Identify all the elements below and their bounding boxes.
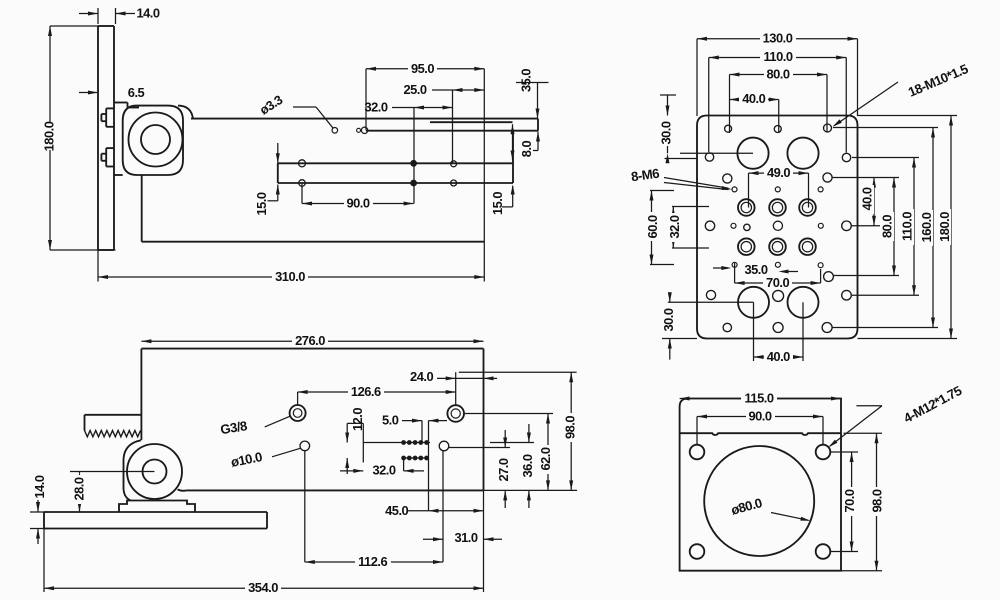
dim 35.0 bbox=[516, 69, 549, 119]
body left edge bbox=[140, 349, 142, 441]
M10 hole 8 bbox=[705, 221, 714, 230]
flange bolt hole TR bbox=[816, 445, 831, 460]
body top edge bbox=[141, 348, 483, 350]
svg-text:30.0: 30.0 bbox=[661, 308, 676, 331]
svg-text:276.0: 276.0 bbox=[295, 333, 325, 348]
dim 40.0 top bbox=[730, 91, 779, 133]
port dot 9 bbox=[419, 456, 423, 460]
rail hole B2 bbox=[411, 180, 417, 186]
svg-text:110.0: 110.0 bbox=[899, 212, 914, 241]
flange bore d80 bbox=[704, 446, 814, 556]
flange inner edge bbox=[680, 433, 841, 435]
dim 276.0 bbox=[141, 333, 483, 348]
dim 15.0 right bbox=[490, 185, 515, 216]
svg-text:28.0: 28.0 bbox=[71, 477, 86, 500]
M10 hole 1 bbox=[725, 125, 732, 132]
dim 8.0 bbox=[511, 124, 541, 160]
svg-text:160.0: 160.0 bbox=[919, 212, 934, 242]
svg-text:25.0: 25.0 bbox=[403, 82, 426, 97]
svg-text:5.0: 5.0 bbox=[382, 413, 399, 428]
dim 98.0 flange bbox=[841, 433, 884, 571]
M6 hole 2 bbox=[775, 187, 780, 192]
dim 70.0 flange bbox=[831, 452, 859, 552]
dim 310.0 bbox=[98, 69, 484, 284]
dim 45.0 bbox=[385, 421, 483, 518]
dim 32.0 bbox=[364, 99, 452, 203]
M6 hole 1 bbox=[732, 187, 737, 192]
dim 14.0 bbox=[79, 6, 160, 24]
dim 110.0 bbox=[709, 49, 847, 153]
svg-text:35.0: 35.0 bbox=[744, 262, 767, 277]
port dot 7 bbox=[407, 456, 411, 460]
dim 90.0 flange bbox=[697, 408, 823, 444]
threaded hole T1 bbox=[738, 199, 755, 216]
svg-text:14.0: 14.0 bbox=[32, 475, 47, 498]
rail bottom edge bbox=[278, 182, 513, 184]
svg-text:32.0: 32.0 bbox=[667, 215, 682, 238]
port bore big TR bbox=[787, 138, 818, 169]
rail left end bbox=[277, 163, 279, 183]
port dot 2 bbox=[407, 441, 411, 445]
centerline to big bore TL bbox=[680, 152, 753, 154]
dim 160.0 right bbox=[832, 128, 938, 328]
svg-text:70.0: 70.0 bbox=[766, 275, 789, 290]
M6 hole 3 bbox=[818, 187, 823, 192]
svg-text:40.0: 40.0 bbox=[742, 91, 765, 106]
M10 hole 13 bbox=[842, 290, 852, 300]
serrated coupling bbox=[85, 415, 141, 437]
svg-text:95.0: 95.0 bbox=[411, 61, 434, 76]
small hole pair bbox=[357, 127, 368, 133]
dim 28.0 bbox=[70, 472, 155, 513]
label 18-M10*1.5 bbox=[833, 61, 971, 127]
M10 hole 14 bbox=[824, 272, 834, 282]
dim 30.0 top bbox=[658, 95, 697, 163]
label 8-M6 bbox=[630, 166, 732, 190]
svg-text:35.0: 35.0 bbox=[518, 69, 533, 92]
dim 6.5 bbox=[79, 85, 145, 100]
svg-text:354.0: 354.0 bbox=[248, 580, 278, 595]
valve plate outline bbox=[697, 116, 858, 339]
svg-text:27.0: 27.0 bbox=[496, 458, 511, 481]
svg-text:90.0: 90.0 bbox=[748, 408, 771, 423]
M10 hole 9 bbox=[842, 221, 852, 231]
mid block right edge bbox=[512, 131, 514, 183]
dim 27.0 bbox=[496, 430, 511, 508]
port bore big BR bbox=[788, 287, 819, 318]
rail top edge bbox=[278, 162, 513, 164]
M6 hole 6 bbox=[818, 263, 823, 268]
rail hole A2 bbox=[299, 180, 306, 187]
dim 25.0 bbox=[403, 82, 484, 164]
svg-text:32.0: 32.0 bbox=[364, 99, 387, 114]
port dot 4 bbox=[419, 441, 423, 445]
svg-text:24.0: 24.0 bbox=[410, 369, 433, 384]
base plate bbox=[44, 512, 267, 529]
dim 130.0 bbox=[697, 30, 858, 116]
dim 49.0 bbox=[749, 165, 809, 208]
ext bottom right bbox=[484, 489, 578, 491]
ext line 98 top bbox=[459, 371, 577, 373]
dim 32.0 cluster bbox=[340, 458, 424, 478]
port dot 8 bbox=[413, 456, 417, 460]
bearing boss outline bbox=[123, 106, 183, 175]
rail hole C2 bbox=[451, 180, 457, 186]
svg-text:49.0: 49.0 bbox=[767, 165, 790, 180]
M6 hole 4 bbox=[732, 262, 737, 267]
threaded hole T6 bbox=[799, 238, 816, 255]
label dia3.3 bbox=[257, 92, 333, 128]
dim 110.0 right bbox=[852, 158, 919, 296]
motor boss right bbox=[178, 490, 187, 491]
motor foot bbox=[119, 501, 195, 513]
svg-text:32.0: 32.0 bbox=[372, 463, 395, 478]
threaded hole T4 bbox=[738, 238, 755, 255]
svg-text:180.0: 180.0 bbox=[937, 212, 952, 242]
svg-text:62.0: 62.0 bbox=[538, 447, 553, 470]
dim 5.0 bbox=[382, 413, 447, 443]
dim 80.0 bbox=[730, 66, 828, 133]
svg-text:15.0: 15.0 bbox=[490, 192, 505, 215]
svg-text:98.0: 98.0 bbox=[869, 489, 884, 512]
motor outer circle bbox=[127, 444, 182, 499]
M10 hole 12 bbox=[773, 290, 784, 301]
dot row1 line bbox=[363, 442, 430, 444]
M10 hole 15 bbox=[723, 323, 731, 331]
svg-text:90.0: 90.0 bbox=[346, 195, 369, 210]
svg-text:31.0: 31.0 bbox=[454, 530, 477, 545]
dim 115.0 bbox=[680, 390, 841, 405]
dim 15.0 left bbox=[254, 143, 280, 216]
arm top edge bbox=[191, 118, 538, 120]
port plug lower bbox=[101, 148, 114, 166]
threaded hole T5 bbox=[769, 238, 786, 255]
svg-text:15.0: 15.0 bbox=[254, 192, 269, 215]
boss to arm transition bbox=[178, 106, 193, 119]
M10 hole 16 bbox=[773, 323, 783, 333]
port dot 3 bbox=[413, 441, 417, 445]
M6 hole 5 bbox=[775, 262, 780, 267]
dim 70.0 plate bbox=[735, 269, 821, 290]
dim 40.0 bottom bbox=[754, 302, 804, 364]
rail hole A1 bbox=[299, 160, 306, 167]
dim 180.0 bbox=[41, 26, 115, 250]
dim 35.0 plate bbox=[713, 262, 798, 283]
M10 hole 7 bbox=[823, 173, 832, 182]
M10 hole 17 bbox=[822, 323, 832, 333]
M6 hole 8 bbox=[818, 223, 823, 228]
body right edge bbox=[483, 349, 485, 491]
svg-text:12.0: 12.0 bbox=[350, 408, 365, 431]
dim 24.0 bbox=[410, 369, 497, 384]
flange bolt hole BL bbox=[690, 544, 705, 559]
flange bolt hole BR bbox=[816, 544, 831, 559]
label 4-M12*1.75 bbox=[828, 383, 964, 447]
dim 14.0 base bbox=[30, 475, 48, 544]
M10 hole 3 bbox=[824, 124, 832, 132]
M10 hole 11 bbox=[706, 290, 715, 299]
body lower-left profile bbox=[114, 175, 484, 242]
dim 12.0 bbox=[345, 408, 365, 474]
M10 hole 2 bbox=[774, 126, 781, 133]
port G3/8 right bbox=[447, 405, 464, 422]
svg-text:112.6: 112.6 bbox=[358, 554, 387, 569]
svg-text:36.0: 36.0 bbox=[520, 454, 535, 477]
dim 60.0 bbox=[645, 191, 674, 265]
hole mid bbox=[439, 441, 449, 451]
M10 hole 10 bbox=[744, 224, 750, 230]
ext row1 right bbox=[490, 442, 534, 444]
dim 36.0 bbox=[520, 424, 535, 508]
bearing outer circle bbox=[129, 113, 183, 167]
dim 95.0 bbox=[366, 61, 484, 130]
svg-text:126.6: 126.6 bbox=[351, 384, 381, 399]
motor inner circle bbox=[143, 460, 167, 484]
svg-text:70.0: 70.0 bbox=[842, 489, 857, 512]
M10 hole 6 bbox=[723, 174, 732, 183]
dim 62.0 bbox=[538, 414, 553, 491]
M10 hole 5 bbox=[842, 153, 850, 161]
port plug upper bbox=[101, 108, 114, 126]
body bottom edge bbox=[187, 489, 484, 491]
threaded hole T2 bbox=[769, 199, 786, 216]
svg-text:40.0: 40.0 bbox=[767, 349, 790, 364]
svg-text:80.0: 80.0 bbox=[879, 215, 894, 238]
svg-text:14.0: 14.0 bbox=[136, 6, 159, 21]
svg-text:110.0: 110.0 bbox=[763, 49, 792, 64]
dim 80.0 right bbox=[834, 178, 899, 276]
dim 180.0 right bbox=[858, 116, 958, 339]
svg-text:60.0: 60.0 bbox=[645, 215, 660, 238]
hole d10 bbox=[300, 441, 310, 451]
port dot 10 bbox=[425, 456, 429, 460]
label dia10.0 bbox=[230, 448, 301, 470]
mounting plate side profile bbox=[98, 26, 114, 250]
rail hole B1 bbox=[411, 161, 417, 167]
shaft end cap bbox=[537, 119, 539, 131]
label dia80.0 bbox=[729, 495, 810, 521]
svg-text:80.0: 80.0 bbox=[766, 66, 789, 81]
body top step bbox=[114, 103, 139, 108]
dim 98.0 view2 bbox=[562, 372, 577, 490]
dim 354.0 bbox=[44, 490, 484, 595]
port dot 5 bbox=[425, 441, 429, 445]
dot row2 line bbox=[403, 457, 429, 459]
svg-text:115.0: 115.0 bbox=[744, 390, 773, 405]
svg-text:8.0: 8.0 bbox=[519, 140, 534, 157]
port dot 6 bbox=[402, 456, 406, 460]
motor boss left bbox=[124, 440, 141, 500]
dim 126.6 bbox=[298, 372, 456, 404]
pad lower edge bbox=[366, 130, 538, 132]
pad upper edge bbox=[430, 121, 513, 123]
port G3/8 left bbox=[290, 405, 306, 421]
dim 40.0 right bbox=[832, 178, 899, 226]
port dot 1 bbox=[402, 441, 406, 445]
svg-text:40.0: 40.0 bbox=[859, 187, 874, 210]
port bore big BL bbox=[738, 287, 769, 318]
svg-text:98.0: 98.0 bbox=[562, 416, 577, 439]
threaded hole T3 bbox=[799, 199, 816, 216]
svg-text:45.0: 45.0 bbox=[385, 503, 408, 518]
M10 hole 4 bbox=[705, 153, 713, 161]
svg-text:6.5: 6.5 bbox=[128, 85, 145, 100]
hole d3.3 bbox=[332, 128, 338, 134]
svg-text:310.0: 310.0 bbox=[275, 269, 305, 284]
bearing inner circle bbox=[141, 125, 170, 154]
dim 32.0 plate bbox=[667, 207, 709, 249]
dim 112.6 bbox=[305, 451, 443, 569]
dim 90.0 bbox=[302, 183, 414, 210]
port bore big TL bbox=[737, 138, 768, 169]
flange bolt hole TL bbox=[690, 445, 705, 460]
rail hole C1 bbox=[451, 161, 457, 167]
dim 31.0 bbox=[423, 450, 502, 562]
center pilot hole bbox=[773, 221, 782, 230]
centerline to big bore BL bbox=[668, 301, 754, 303]
flange outline bbox=[680, 399, 841, 571]
ext hole mid right bbox=[449, 447, 510, 449]
dim 30.0 bottom bbox=[661, 292, 697, 359]
cluster left vline bbox=[362, 423, 364, 462]
ext line G38 row bbox=[464, 413, 553, 415]
M6 hole 7 bbox=[731, 223, 736, 228]
label G3/8 bbox=[219, 416, 290, 437]
svg-text:30.0: 30.0 bbox=[658, 121, 673, 144]
svg-text:180.0: 180.0 bbox=[41, 121, 56, 151]
svg-text:130.0: 130.0 bbox=[763, 30, 793, 45]
